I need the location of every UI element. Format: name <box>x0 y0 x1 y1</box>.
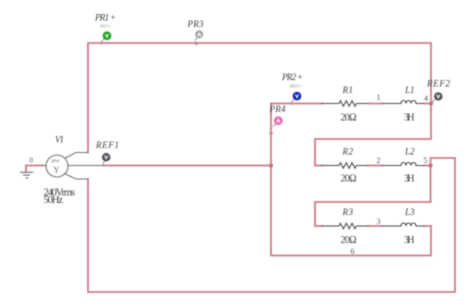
svg-text:R1: R1 <box>342 85 354 95</box>
svg-text:20Ω: 20Ω <box>341 113 357 124</box>
svg-text:REF1 -: REF1 - <box>99 24 114 29</box>
svg-text:L3: L3 <box>404 207 415 217</box>
svg-text:PR4: PR4 <box>269 104 287 114</box>
svg-text:2: 2 <box>377 156 381 165</box>
svg-text:0: 0 <box>30 157 34 165</box>
svg-text:20Ω: 20Ω <box>341 174 357 185</box>
svg-text:3H: 3H <box>404 235 415 246</box>
svg-text:PR2 +: PR2 + <box>281 72 303 82</box>
svg-text:5: 5 <box>424 156 428 165</box>
svg-text:6: 6 <box>351 247 355 256</box>
svg-text:L2: L2 <box>404 147 415 157</box>
svg-text:PR1 +: PR1 + <box>94 13 116 23</box>
svg-text:3PH: 3PH <box>51 159 59 164</box>
svg-text:V1: V1 <box>55 135 64 145</box>
svg-text:L1: L1 <box>404 85 415 95</box>
svg-text:50Hz: 50Hz <box>44 195 64 206</box>
svg-text:3H: 3H <box>404 113 415 124</box>
svg-text:4: 4 <box>424 94 428 103</box>
svg-text:1: 1 <box>377 93 381 102</box>
svg-text:20Ω: 20Ω <box>341 235 357 246</box>
svg-text:REF1: REF1 <box>95 140 119 150</box>
svg-text:3: 3 <box>377 217 381 226</box>
svg-text:REF2: REF2 <box>426 79 451 89</box>
svg-text:3H: 3H <box>404 174 415 185</box>
svg-text:R3: R3 <box>342 207 354 217</box>
svg-text:REF1 -: REF1 - <box>289 84 304 89</box>
svg-text:Y: Y <box>54 166 60 175</box>
svg-text:PR3: PR3 <box>187 19 205 29</box>
svg-text:R2: R2 <box>342 147 354 157</box>
